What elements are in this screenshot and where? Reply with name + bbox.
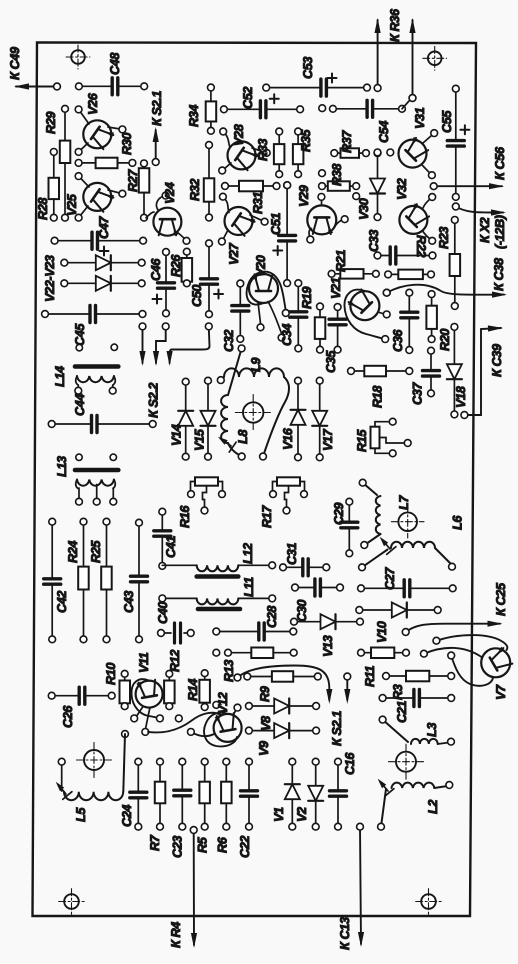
inductor L6: [359, 515, 465, 571]
inductor L3: [379, 716, 454, 745]
svg-text:R32: R32: [188, 179, 202, 201]
capacitor C31: [280, 543, 330, 576]
svg-text:R14: R14: [186, 679, 200, 701]
svg-text:C27: C27: [383, 567, 397, 590]
resistor R21: [328, 250, 379, 279]
resistor R9: [244, 671, 321, 702]
svg-text:R15: R15: [355, 429, 369, 452]
svg-text:C43: C43: [122, 591, 136, 613]
via pair near C45: [76, 344, 117, 351]
resistor R6: [216, 758, 232, 853]
arrow to C38: [383, 257, 507, 298]
trim resistor R16: [178, 477, 225, 528]
arrow to X2 (-12V): [452, 203, 506, 216]
svg-text:R34: R34: [187, 105, 201, 127]
arrow to S2.2 (first): [139, 323, 146, 366]
mounting hole at coil L8 center: [235, 395, 271, 431]
svg-text:К S2.1: К S2.1: [330, 711, 344, 746]
diode V10: [356, 603, 441, 644]
inductor L7: [359, 479, 411, 548]
capacitor C16: [330, 752, 358, 831]
svg-text:C26: C26: [61, 705, 75, 728]
label R22: [414, 235, 428, 257]
svg-text:L6: L6: [451, 515, 465, 530]
capacitor C32: [222, 280, 249, 352]
svg-text:К C39: К C39: [490, 344, 504, 377]
resistor R15: [355, 418, 411, 456]
svg-text:C40: C40: [156, 602, 170, 624]
svg-text:R9: R9: [258, 686, 272, 702]
transistor V32: [395, 178, 436, 244]
capacitor C42: [44, 518, 69, 642]
arrow to S2.1 (top): [150, 91, 164, 166]
resistor R34: [187, 84, 216, 134]
pad R31-C51 junction: [284, 182, 291, 189]
svg-text:V13: V13: [321, 635, 335, 657]
capacitor C37: [411, 347, 440, 405]
svg-text:C24: C24: [120, 805, 134, 827]
resistor R3: [383, 671, 455, 700]
capacitor C51: [269, 182, 296, 287]
capacitor C53: [263, 57, 371, 97]
resistor R13: [222, 648, 297, 683]
svg-text:R11: R11: [363, 666, 377, 687]
resistor R27: [126, 160, 149, 221]
svg-text:R31: R31: [251, 192, 265, 214]
svg-text:V22-V23: V22-V23: [43, 255, 57, 302]
svg-text:C28: C28: [265, 605, 279, 628]
svg-text:C48: C48: [108, 52, 122, 75]
transistor V25: [65, 173, 126, 221]
inductor L12: [162, 543, 275, 577]
svg-text:R13: R13: [222, 660, 236, 682]
diode V18: [447, 324, 468, 418]
svg-text:R37: R37: [340, 130, 354, 153]
svg-text:К C56: К C56: [493, 146, 507, 180]
svg-text:C32: C32: [222, 330, 236, 352]
capacitor C41: [154, 508, 178, 569]
mounting hole at coil L6 center: [391, 505, 424, 538]
diode V23: [61, 276, 145, 291]
arrow to R36 (second): [388, 8, 416, 101]
resistor R5: [196, 758, 210, 853]
svg-text:C55: C55: [440, 110, 454, 133]
capacitor C54: [330, 100, 406, 117]
capacitor C52: [221, 87, 304, 118]
transistor V31: [399, 107, 438, 178]
svg-text:C34: C34: [280, 324, 294, 346]
capacitor C44: [48, 394, 156, 433]
pad below R38 right: [353, 193, 360, 200]
inductor L14: [53, 366, 118, 394]
arrow to C13: [338, 823, 364, 950]
arrow to C56: [430, 146, 507, 190]
capacitor C48: [76, 52, 148, 95]
mounting hole at top-left: [66, 45, 90, 69]
svg-text:V17: V17: [321, 428, 335, 451]
capacitor C45: [42, 306, 146, 347]
mounting hole at bottom-left: [59, 889, 85, 915]
capacitor C21: [379, 690, 454, 724]
arrow to S2.2 (second): [153, 323, 169, 366]
svg-text:C23: C23: [171, 836, 185, 858]
svg-text:V18: V18: [454, 385, 468, 408]
diode V1: [272, 758, 300, 830]
capacitor C26: [48, 687, 115, 728]
resistor R11: [358, 648, 410, 688]
resistor R30: [75, 133, 136, 169]
transistor V29: [297, 185, 348, 243]
svg-text:L11: L11: [242, 577, 256, 597]
svg-text:R17: R17: [260, 505, 274, 528]
diode V13: [291, 614, 364, 657]
transistor V28: [219, 123, 270, 174]
resistor R10: [104, 663, 130, 710]
resistor R18: [348, 366, 413, 408]
svg-text:V26: V26: [86, 92, 100, 115]
capacitor C36: [391, 289, 418, 353]
svg-text:V20: V20: [254, 255, 268, 277]
svg-text:L14: L14: [53, 366, 67, 387]
transistor V20: [247, 255, 290, 341]
svg-text:V24: V24: [163, 182, 177, 204]
svg-text:R38: R38: [330, 163, 344, 186]
svg-text:L8: L8: [236, 429, 250, 444]
svg-text:R27: R27: [126, 169, 140, 192]
svg-text:V31: V31: [413, 107, 427, 129]
svg-text:R16: R16: [178, 505, 192, 528]
diode V17: [312, 377, 335, 460]
svg-text:R33: R33: [256, 139, 270, 161]
svg-text:C21: C21: [395, 701, 409, 723]
svg-text:C31: C31: [285, 543, 299, 565]
arrow to R4: [169, 827, 197, 948]
inductor L8: [218, 395, 250, 460]
arrow to C49: [8, 47, 60, 90]
capacitor C22: [238, 758, 258, 858]
svg-text:C37: C37: [411, 382, 425, 405]
capacitor C28: [213, 605, 297, 640]
mounting hole at top-right: [423, 46, 447, 70]
svg-text:V1: V1: [272, 807, 286, 822]
diode V30: [357, 149, 385, 221]
svg-text:R21: R21: [334, 250, 348, 272]
label K S2.1 (bottom): [330, 711, 344, 746]
inductor L2: [378, 779, 453, 830]
label K S2.2: [147, 383, 161, 418]
svg-text:C22: C22: [238, 836, 252, 858]
svg-text:L3: L3: [425, 723, 439, 737]
svg-text:К R4: К R4: [169, 922, 183, 948]
svg-text:R30: R30: [120, 133, 134, 155]
resistor R7: [148, 758, 165, 851]
svg-text:V29: V29: [297, 185, 311, 207]
svg-text:R24: R24: [66, 541, 80, 563]
svg-text:C53: C53: [301, 57, 315, 79]
resistor R20: [426, 291, 452, 351]
svg-text:К C49: К C49: [8, 47, 22, 80]
resistor R29: [44, 105, 70, 221]
svg-text:L13: L13: [55, 456, 69, 477]
inductor L11: [159, 577, 276, 609]
resistor R38: [319, 163, 360, 191]
capacitor C33: [367, 230, 436, 264]
arrow to C25: [402, 582, 508, 635]
capacitor C55: [440, 85, 469, 200]
svg-text:V25: V25: [65, 193, 79, 216]
svg-text:C54: C54: [377, 121, 391, 143]
resistor R24: [66, 518, 89, 642]
inductor L9: [217, 345, 289, 460]
resistor R32: [188, 142, 214, 221]
svg-text:L5: L5: [74, 807, 88, 822]
resistor R26: [169, 248, 192, 286]
svg-text:К R36: К R36: [388, 8, 402, 42]
arrow to S2.1 (bottom first): [234, 666, 332, 705]
resistor R31: [222, 181, 280, 214]
svg-text:R23: R23: [437, 227, 451, 249]
capacitor C34: [280, 280, 307, 352]
label V22-V23: [43, 255, 57, 302]
resistor R12: [164, 650, 182, 710]
svg-text:C29: C29: [332, 503, 346, 525]
svg-text:V8: V8: [259, 715, 273, 731]
capacitor C27: [358, 567, 457, 597]
board outline: [33, 43, 477, 917]
diode V2: [295, 758, 323, 830]
mounting hole at coil L5 center: [77, 743, 112, 778]
resistor R23: [437, 217, 460, 310]
pad right of R37: [374, 149, 394, 157]
arrow to S2.1 (bottom second): [344, 673, 351, 704]
diode V15: [193, 377, 216, 460]
svg-text:C16: C16: [343, 752, 357, 775]
svg-text:R26: R26: [169, 254, 183, 277]
pad start of C38 wire: [383, 289, 390, 296]
arrow to R36 (first): [374, 18, 381, 91]
svg-text:C47: C47: [97, 216, 111, 239]
svg-text:R6: R6: [216, 836, 230, 853]
inductor L5: [56, 734, 125, 822]
svg-text:(-12В): (-12В): [493, 215, 507, 249]
svg-text:R35: R35: [299, 129, 313, 152]
capacitor C30: [292, 579, 344, 622]
svg-text:V2: V2: [295, 807, 309, 822]
resistor R25: [89, 518, 112, 642]
wire vertical wire left of R13: [213, 649, 220, 708]
svg-text:C51: C51: [269, 213, 283, 235]
transistor V26: [75, 92, 126, 155]
svg-text:R20: R20: [438, 329, 452, 351]
svg-text:V12: V12: [216, 692, 230, 714]
svg-text:R10: R10: [104, 663, 118, 685]
diode V8: [246, 699, 320, 732]
resistor R22: [385, 270, 435, 280]
resistor R19: [300, 287, 325, 354]
resistor R28: [36, 149, 59, 222]
svg-text:V30: V30: [357, 198, 371, 220]
svg-text:V9: V9: [257, 741, 271, 756]
arrow to S2.2 (third): [167, 323, 213, 366]
svg-text:R18: R18: [371, 385, 385, 408]
transistor V24: [146, 182, 190, 244]
svg-text:C36: C36: [391, 329, 405, 352]
transistor V21: [329, 277, 390, 342]
svg-text:L12: L12: [241, 543, 255, 564]
svg-text:C52: C52: [241, 87, 255, 109]
svg-text:L7: L7: [397, 495, 411, 510]
capacitor C23: [171, 758, 191, 858]
svg-text:C46: C46: [149, 258, 163, 281]
svg-text:V27: V27: [227, 242, 241, 265]
capacitor C43: [122, 519, 148, 642]
svg-text:К X2: К X2: [478, 217, 492, 243]
svg-text:V32: V32: [395, 178, 409, 200]
svg-text:V15: V15: [193, 428, 207, 451]
svg-text:L2: L2: [426, 800, 440, 814]
svg-text:L9: L9: [249, 358, 263, 372]
pad near V12: [175, 715, 182, 722]
capacitor C50: [190, 240, 223, 318]
svg-text:V11: V11: [137, 652, 151, 673]
mounting hole at coil L2 center: [389, 744, 424, 779]
resistor R14: [186, 670, 210, 711]
svg-text:R7: R7: [148, 834, 162, 851]
svg-text:К C13: К C13: [338, 917, 352, 950]
mounting hole at bottom-right: [416, 889, 442, 915]
trim resistor R17: [260, 477, 307, 528]
svg-text:R12: R12: [168, 650, 182, 672]
svg-text:R5: R5: [196, 836, 210, 853]
resistor R37: [331, 130, 370, 158]
transistor V27: [219, 193, 269, 265]
capacitor C24: [120, 758, 147, 830]
diode V22: [61, 255, 145, 270]
inductor L13: [55, 454, 118, 505]
capacitor C46: [149, 249, 175, 317]
svg-text:C42: C42: [55, 591, 69, 613]
transistor V12: [122, 692, 242, 746]
svg-text:V21: V21: [329, 277, 343, 299]
svg-text:К S2.1: К S2.1: [150, 91, 164, 126]
svg-text:R28: R28: [36, 197, 50, 220]
capacitor C35: [324, 304, 346, 373]
svg-text:V16: V16: [281, 427, 295, 450]
svg-text:V10: V10: [375, 621, 389, 643]
wire vertical wire under C54: [319, 105, 326, 177]
resistor R33: [256, 128, 284, 178]
transistor V11: [131, 652, 164, 735]
label K X2 (-12V): [478, 215, 507, 249]
svg-text:C50: C50: [190, 285, 204, 307]
transistor V7: [421, 635, 513, 700]
capacitor C40: [156, 602, 194, 643]
svg-text:V7: V7: [494, 684, 508, 700]
diode V16: [281, 377, 306, 460]
svg-text:C33: C33: [367, 230, 381, 252]
svg-text:R19: R19: [300, 287, 314, 309]
svg-text:R25: R25: [89, 540, 103, 563]
svg-text:C45: C45: [73, 323, 87, 346]
arrow to C39: [461, 325, 504, 418]
svg-text:К S2.2: К S2.2: [147, 383, 161, 418]
svg-text:C35: C35: [324, 350, 338, 373]
diode V9: [246, 723, 320, 756]
svg-text:К C38: К C38: [492, 257, 506, 291]
svg-text:V14: V14: [169, 424, 183, 446]
capacitor C47: [51, 216, 146, 256]
lead C54 to pad: [377, 95, 416, 143]
svg-text:C30: C30: [295, 600, 309, 622]
svg-text:C41: C41: [164, 536, 178, 558]
svg-text:К C25: К C25: [494, 582, 508, 616]
diode V14: [169, 378, 193, 460]
svg-text:V28: V28: [232, 123, 246, 146]
svg-text:R22: R22: [414, 235, 428, 257]
svg-text:C44: C44: [73, 394, 87, 416]
svg-text:R29: R29: [44, 112, 58, 134]
capacitor C29: [332, 498, 358, 556]
resistor R35: [293, 128, 313, 178]
